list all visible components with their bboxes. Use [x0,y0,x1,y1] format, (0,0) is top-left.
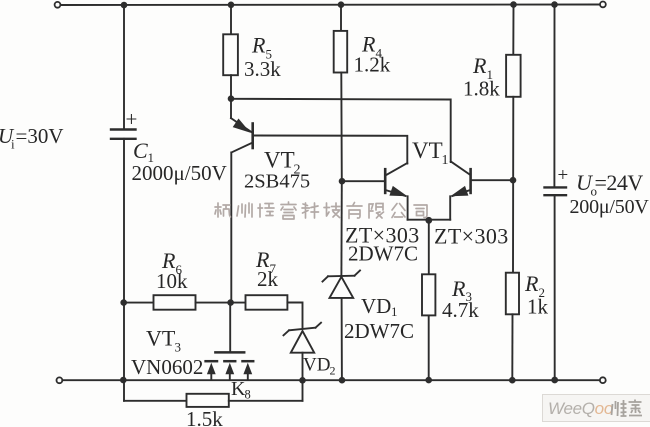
svg-text:1.8k: 1.8k [463,77,500,101]
transistor VT1 left (ZT X 303 NPN) [342,163,407,196]
MOSFET VT3 (VN0602) gate lead [229,303,231,352]
node: top rail / R5 junction [228,2,235,9]
label R7 [255,247,277,276]
node: R1 bottom / VT1 right base junction [510,177,517,184]
svg-text:200μ/50V: 200μ/50V [570,196,650,218]
wire emitters joining segment [408,219,451,221]
wire C1 branch lower [123,139,125,380]
node: top rail / output cap junction [551,1,558,8]
MOSFET VT3 electrode bars [206,360,254,363]
wire R7 right lead to VD2 [287,303,302,328]
node: VT1 emitters junction [425,217,432,224]
wire bottom feedback loop right [302,380,304,401]
wire VD1 bottom lead [341,298,343,380]
wire VT2 collector down to R6/R7 node [230,152,232,302]
wire R4 bottom lead to VT1 left base node [340,73,343,182]
wire R1 bottom lead down through base node to R2 [512,97,514,273]
label R2 [524,271,545,300]
wire bottom feedback loop left [123,380,125,401]
wire R3 top lead from emitters node [428,220,430,274]
wire bottom feedback loop bottom-right [229,400,303,402]
node: R4 / VT1 left base / VD1 junction [339,178,346,185]
svg-text:R: R [524,271,539,296]
node: VD2 / bottom rail junction [299,377,306,384]
resistor R4 [334,31,348,73]
resistor R3 [422,274,435,315]
label VT3 [146,326,181,355]
wire R4 top lead [340,5,342,31]
watermark hangzhou text [215,202,427,219]
label VD2 [303,355,336,378]
label C1 [133,138,154,165]
node: R3 / bottom rail junction [425,377,432,384]
MOSFET VT3 gate plate [215,351,244,354]
resistor R2 [506,273,519,315]
svg-text:8: 8 [245,388,251,402]
wire VT1 left emitter lead [407,196,409,219]
wire R7 left lead [231,302,246,304]
svg-text:2DW7C: 2DW7C [348,242,418,266]
svg-text:1k: 1k [527,295,549,319]
wire R1 top lead [512,5,514,55]
svg-text:2SB475: 2SB475 [244,171,310,193]
label R4 [361,32,383,61]
input terminal bottom-left [57,377,63,383]
svg-text:2DW7C: 2DW7C [344,319,414,343]
label Ui=30V [0,124,64,152]
wire R3 bottom lead [428,315,430,380]
wire VD1 top lead [340,181,342,276]
node: VT2 emitter junction [228,95,235,102]
resistor 1.5k [187,394,229,407]
label VD1 [361,294,398,319]
node: VD1 / bottom rail junction [339,377,346,384]
resistor R5 [223,34,238,75]
top rail wire [61,4,601,7]
wire R5 top lead [230,5,232,34]
svg-text:1: 1 [391,304,398,319]
wire bottom feedback loop bottom-left [124,400,187,402]
resistor R7 [246,295,288,310]
label R6 [161,248,183,277]
svg-text:2k: 2k [257,267,279,291]
svg-text:C: C [133,138,148,163]
capacitor 200u/50V output [545,187,567,195]
node: output cap / bottom rail junction [551,377,558,384]
resistor R6 [154,295,196,310]
svg-text:VD: VD [361,294,391,318]
node: C1 branch / bottom rail junction [120,377,127,384]
label VT2 [264,148,301,178]
svg-text:1.5k: 1.5k [186,407,223,427]
svg-text:VT: VT [264,148,295,173]
node: top rail / R1 junction [510,1,517,8]
svg-text:10k: 10k [156,269,188,293]
wire VD2 bottom lead [302,353,304,381]
label R3 [451,276,472,304]
svg-text:+: + [126,107,138,131]
transistor VT2 (2SB475 PNP) [231,99,253,152]
wire R6 left lead [124,302,154,304]
svg-text:1: 1 [442,153,449,168]
label K8 [231,378,251,402]
svg-text:i: i [11,137,15,152]
wire R6 right lead [196,302,231,304]
svg-text:=30V: =30V [16,124,64,148]
svg-text:R: R [472,53,487,78]
svg-text:1.2k: 1.2k [354,53,391,77]
svg-text:4.7k: 4.7k [442,298,479,322]
output terminal top-right [600,2,606,8]
svg-text:ZT×303: ZT×303 [434,224,509,249]
label R5 [251,33,272,62]
zener diode VD1 (2DW7C) [323,271,361,298]
node: top rail / C1 junction [121,2,128,9]
label VT1 [412,138,449,168]
wire VT1 right base to R1/R2 column [471,179,513,181]
node: R6 / R7 / VT3 gate junction [227,299,234,306]
node: top rail / R4 junction [338,1,345,8]
zener diode VD2 [284,323,322,353]
svg-text:2: 2 [330,364,336,378]
bottom rail wire [62,379,600,381]
svg-text:3.3k: 3.3k [244,57,281,81]
svg-text:3: 3 [175,340,182,355]
MOSFET VT3 arrows [207,363,252,380]
wire VT1 right emitter lead [449,196,451,219]
wire output cap top lead [553,5,555,187]
svg-text:VT: VT [412,138,443,163]
transistor VT1 right (ZT X 303 NPN) [450,162,470,197]
watermark weeqoo logo [543,395,650,422]
svg-text:WeeQoo: WeeQoo [548,399,613,418]
wire R2 bottom lead [511,314,513,380]
input terminal top-left [55,2,61,8]
svg-text:VT: VT [146,326,176,351]
node: R2 / bottom rail junction [509,377,516,384]
wire output cap bottom lead [554,195,556,380]
svg-text:2000μ/50V: 2000μ/50V [132,161,227,185]
node: C1 branch / R6 row junction [120,299,127,306]
wire VT2 emitter node to VT1 right collector [231,99,451,162]
svg-text:VD: VD [303,355,330,376]
svg-text:VN0602: VN0602 [131,355,203,379]
wire R5 bottom lead [230,75,232,99]
label R1 [472,53,493,82]
svg-text:R: R [251,33,266,58]
svg-text:+: + [558,165,569,186]
wire VT2 base to VT1 left collector [253,136,407,164]
wire C1 branch upper [123,5,125,129]
resistor R1 [506,55,520,97]
label Uo=24V [576,170,643,199]
svg-text:=24V: =24V [595,170,644,195]
capacitor C1 [111,130,136,139]
output terminal bottom-right [600,377,606,383]
